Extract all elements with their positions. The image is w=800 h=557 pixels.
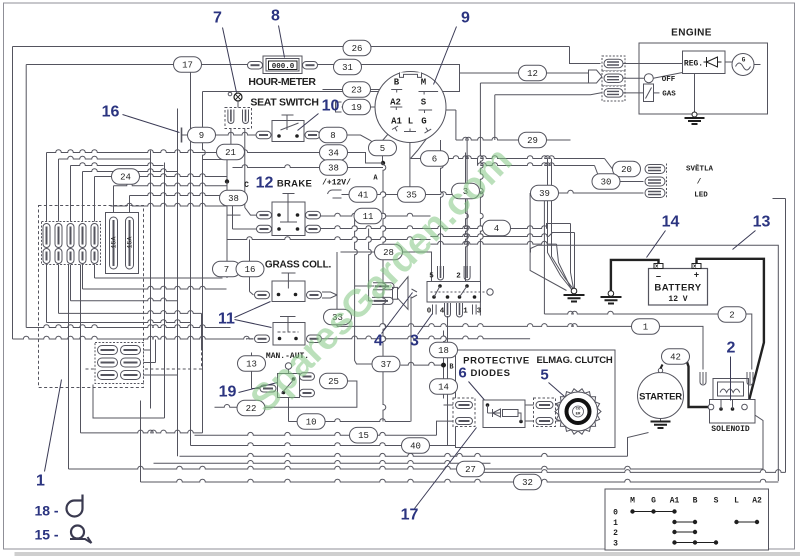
elmag clutch 5 bbox=[555, 389, 601, 434]
wire 27 long bottom run bbox=[69, 238, 764, 470]
wire label oval 20 bbox=[613, 161, 641, 177]
ignition switch 9 bbox=[375, 72, 446, 143]
wire 32 long bottom run bbox=[141, 401, 779, 483]
svg-text:25: 25 bbox=[328, 377, 339, 387]
horn connectors bbox=[372, 283, 394, 305]
svg-text:G: G bbox=[421, 117, 426, 127]
svg-text:HOUR-METER: HOUR-METER bbox=[248, 76, 316, 88]
label 4 leader bbox=[374, 293, 412, 350]
svg-text:10: 10 bbox=[306, 418, 317, 428]
svg-text:LED: LED bbox=[694, 192, 708, 200]
svg-text:3: 3 bbox=[613, 539, 618, 548]
svg-text:23: 23 bbox=[351, 86, 362, 96]
wire label oval 31 bbox=[334, 59, 362, 75]
svg-text:A1: A1 bbox=[670, 497, 680, 506]
wire 40 run bbox=[191, 427, 456, 446]
wire 21 top bend bbox=[203, 159, 228, 161]
svg-text:7: 7 bbox=[213, 10, 222, 27]
wire 20 to plug bbox=[621, 181, 644, 183]
svg-text:L: L bbox=[734, 497, 739, 506]
engine plugs bbox=[602, 56, 625, 101]
svg-text:11: 11 bbox=[363, 212, 374, 222]
engine ground bbox=[685, 74, 705, 125]
label 8 leader bbox=[271, 8, 284, 58]
svg-text:DIODES: DIODES bbox=[470, 368, 510, 379]
svg-text:M: M bbox=[421, 78, 426, 88]
svg-text:37: 37 bbox=[381, 360, 392, 370]
wire label oval 12 bbox=[519, 65, 547, 81]
wires plugs to reg bbox=[623, 64, 683, 79]
svg-text:A: A bbox=[373, 175, 378, 183]
svg-text:9: 9 bbox=[199, 131, 204, 141]
wire 4 brake-horn row bbox=[320, 224, 571, 229]
hour meter U8 bbox=[263, 56, 302, 74]
svg-text:34: 34 bbox=[328, 149, 339, 159]
svg-text:G: G bbox=[742, 57, 746, 64]
ignition terminal labels bbox=[390, 78, 427, 127]
svg-text:35: 35 bbox=[406, 191, 417, 201]
wire 41 35 row bbox=[342, 192, 466, 195]
label 16 leader bbox=[102, 104, 180, 133]
wire L terminal down bbox=[409, 132, 411, 195]
engine box bbox=[639, 43, 768, 114]
svg-text:+: + bbox=[694, 271, 699, 281]
svg-text:3: 3 bbox=[477, 308, 482, 316]
svg-text:27: 27 bbox=[465, 465, 476, 475]
fork connector +12V bbox=[328, 190, 342, 198]
svg-text:GAS: GAS bbox=[662, 91, 676, 99]
bar 16 bbox=[181, 128, 183, 143]
wire grass2 right bbox=[322, 336, 530, 339]
seat switch S10 bbox=[272, 115, 304, 142]
wire lamp 2 bbox=[478, 159, 621, 182]
svg-text:S: S bbox=[714, 497, 719, 506]
wire 2 pin vertical bbox=[466, 140, 468, 267]
svg-text:1: 1 bbox=[463, 308, 468, 316]
key symbol 15 bbox=[34, 526, 91, 544]
wire 39 lamp 3 bbox=[530, 190, 643, 193]
wire pin drops clutch control bbox=[447, 316, 449, 446]
relay connector block bbox=[95, 343, 144, 384]
wire 22 loop bbox=[215, 405, 331, 408]
diode connector right bbox=[534, 398, 556, 427]
diode module D6 bbox=[483, 400, 525, 428]
svg-text:ELMAG. CLUTCH: ELMAG. CLUTCH bbox=[536, 355, 612, 366]
wire 9 seat feed bbox=[182, 132, 258, 135]
horn 4 bbox=[393, 277, 418, 310]
seat switch connectors bbox=[256, 131, 320, 139]
wire 26 top loop bbox=[13, 47, 601, 64]
wire 31 row bbox=[203, 91, 419, 93]
svg-text:ER: ER bbox=[576, 413, 581, 417]
svg-text:C: C bbox=[244, 181, 249, 190]
svg-text:A2: A2 bbox=[390, 98, 401, 108]
svg-text:18 -: 18 - bbox=[34, 503, 58, 519]
svg-text:STARTER: STARTER bbox=[639, 392, 682, 403]
svg-text:30: 30 bbox=[601, 178, 612, 188]
wire outer right loop bbox=[484, 199, 786, 473]
OFF switch bbox=[644, 74, 675, 84]
wire label oval 39 bbox=[531, 185, 559, 201]
label MAN.-AUT. bbox=[266, 352, 309, 361]
hour meter connectors bbox=[248, 61, 318, 68]
label 6 leader bbox=[469, 382, 488, 404]
svg-text:B: B bbox=[449, 364, 454, 372]
svg-text:15A: 15A bbox=[111, 237, 118, 249]
svg-text:12: 12 bbox=[527, 69, 538, 79]
wire run 462 bbox=[154, 461, 491, 464]
svg-text:21: 21 bbox=[225, 148, 236, 158]
wire label oval 28 bbox=[375, 244, 403, 260]
label SVETLA / LED bbox=[686, 165, 714, 200]
svg-text:15 -: 15 - bbox=[34, 527, 58, 543]
svg-text:15: 15 bbox=[358, 431, 369, 441]
wire label oval 40 bbox=[402, 438, 430, 454]
svg-text:19: 19 bbox=[219, 384, 237, 401]
label GRASS COLL. bbox=[265, 260, 332, 271]
wire 38 bbox=[233, 165, 384, 168]
grass switch S11a bbox=[272, 273, 305, 302]
wire 37 left bbox=[355, 286, 372, 364]
grid stubs bbox=[138, 340, 178, 376]
wire label oval 19 bbox=[343, 99, 371, 115]
wire row 327 bbox=[26, 325, 230, 328]
wire row 339 grass2 feed bbox=[13, 336, 254, 339]
wire label oval 8 bbox=[319, 127, 347, 143]
wire label oval 6 bbox=[421, 151, 449, 167]
diode box feeds bbox=[444, 404, 454, 406]
svg-text:M: M bbox=[630, 497, 635, 506]
relay 19 connectors bbox=[300, 373, 315, 397]
svg-text:42: 42 bbox=[670, 353, 681, 363]
svg-text:41: 41 bbox=[358, 191, 369, 201]
generator G bbox=[725, 54, 761, 76]
left long verticals bbox=[13, 47, 206, 457]
svg-text:PROTECTIVE: PROTECTIVE bbox=[463, 356, 530, 367]
wire label oval 26 bbox=[343, 40, 371, 56]
node A junction bbox=[381, 161, 386, 422]
svg-text:9: 9 bbox=[461, 10, 470, 27]
wire label oval 21 bbox=[217, 144, 245, 160]
ground starter bbox=[651, 419, 671, 429]
brake switch S12 bbox=[272, 194, 305, 236]
starter motor 2 bbox=[638, 368, 684, 418]
svg-text:22: 22 bbox=[246, 404, 257, 414]
wire grass1 right fork bbox=[322, 292, 337, 298]
GAS switch bbox=[623, 84, 676, 102]
wire 20 vertical feeders bbox=[530, 159, 551, 315]
label 3 leader bbox=[410, 314, 432, 350]
wire 19 to A2 terminal bbox=[342, 106, 391, 108]
wire label oval 14 bbox=[430, 379, 458, 395]
wire label oval 22 bbox=[237, 400, 265, 416]
wire label oval 1 bbox=[632, 319, 660, 335]
wire label oval 17 bbox=[174, 57, 202, 73]
regulator REG bbox=[683, 51, 726, 74]
svg-text:17: 17 bbox=[401, 507, 419, 524]
wire 18 37 B column bbox=[401, 331, 447, 399]
wire 12 ignition M to engine plug bbox=[460, 72, 589, 74]
oval 42 and starter lead bbox=[661, 365, 663, 369]
wire label oval 24 bbox=[112, 169, 140, 185]
grass2 connectors bbox=[255, 335, 322, 343]
wire 23 to B terminal bbox=[323, 89, 392, 91]
wire label oval 18 bbox=[430, 342, 458, 358]
wire label oval 13 bbox=[238, 356, 266, 372]
wire label oval 25 bbox=[320, 373, 348, 389]
label 9 leader bbox=[434, 10, 471, 85]
wire grass1 feed row bbox=[228, 237, 431, 295]
engine plug arrow bbox=[589, 70, 603, 83]
label 5 leader bbox=[549, 383, 565, 397]
dashed harness edge bbox=[86, 331, 202, 370]
wire label oval 34 bbox=[320, 145, 348, 161]
wire 5 A1 leg bbox=[383, 130, 393, 164]
svg-text:5: 5 bbox=[380, 144, 385, 154]
wire 21 bbox=[225, 160, 241, 279]
svg-text:ENGINE: ENGINE bbox=[671, 28, 712, 39]
wire label oval 2 bbox=[718, 307, 746, 323]
svg-text:14: 14 bbox=[438, 383, 449, 393]
label 13 leader bbox=[733, 214, 771, 250]
svg-text:B: B bbox=[394, 78, 400, 88]
wire 24 row bbox=[95, 174, 228, 224]
fuse box 1 bbox=[39, 206, 144, 388]
svg-text:38: 38 bbox=[228, 194, 239, 204]
wire 2 solenoid feed bbox=[544, 311, 751, 369]
svg-text:18: 18 bbox=[438, 346, 449, 356]
label HOUR-METER bbox=[248, 76, 316, 88]
protective diodes box bbox=[456, 350, 616, 448]
svg-text:11: 11 bbox=[218, 311, 235, 328]
svg-text:13: 13 bbox=[246, 360, 257, 370]
wire row 236 bbox=[431, 233, 575, 237]
label 1 leader bbox=[36, 380, 61, 490]
wire ignition to engine mid bbox=[480, 83, 588, 316]
solenoid bbox=[708, 379, 755, 424]
wire label oval 9 bbox=[188, 127, 216, 143]
svg-text:/: / bbox=[697, 179, 702, 187]
wire label oval 41 bbox=[349, 187, 377, 203]
label SEAT SWITCH bbox=[250, 97, 318, 109]
svg-text:3: 3 bbox=[410, 333, 419, 350]
connector bracket left of oval 19 bbox=[336, 102, 342, 112]
grass1 connectors bbox=[255, 291, 322, 299]
svg-text:L: L bbox=[408, 117, 413, 127]
svg-text:31: 31 bbox=[342, 63, 353, 73]
wire label oval 7 bbox=[213, 261, 241, 277]
svg-text:SEAT SWITCH: SEAT SWITCH bbox=[250, 97, 318, 109]
svg-text:8: 8 bbox=[330, 131, 335, 141]
svg-text:1: 1 bbox=[643, 323, 648, 333]
wire label oval 35 bbox=[398, 187, 426, 203]
wire 28 row bbox=[337, 252, 432, 326]
svg-text:12 V: 12 V bbox=[668, 295, 687, 304]
svg-text:1: 1 bbox=[613, 519, 618, 528]
svg-text:32: 32 bbox=[522, 478, 533, 488]
ground fan wires bbox=[530, 191, 574, 291]
wire row 205 bbox=[111, 203, 228, 206]
svg-text:17: 17 bbox=[182, 61, 193, 71]
svg-text:2: 2 bbox=[613, 529, 618, 538]
svg-text:/+12V/: /+12V/ bbox=[322, 179, 351, 188]
svg-text:4: 4 bbox=[374, 333, 383, 350]
relay 19 bbox=[278, 363, 300, 398]
svg-text:12: 12 bbox=[256, 175, 274, 192]
svg-text:−: − bbox=[656, 273, 661, 283]
key symbol 18 bbox=[34, 495, 82, 519]
clutch control pin labels bbox=[427, 273, 482, 316]
svg-text:8: 8 bbox=[271, 8, 280, 25]
svetla plugs bbox=[645, 164, 667, 199]
svg-text:OFF: OFF bbox=[662, 76, 676, 84]
fuse riser rows bbox=[47, 150, 205, 224]
svg-text:7: 7 bbox=[224, 265, 229, 275]
svg-text:14: 14 bbox=[662, 214, 680, 231]
wire label oval 32 bbox=[514, 474, 542, 490]
svg-text:40: 40 bbox=[410, 442, 421, 452]
svg-text:5: 5 bbox=[540, 367, 548, 384]
svg-text:2: 2 bbox=[729, 311, 734, 321]
seat plug drops bbox=[231, 129, 257, 216]
svg-text:000.0: 000.0 bbox=[272, 63, 295, 71]
svg-text:S: S bbox=[421, 98, 427, 108]
wire 8 seat output bbox=[320, 135, 377, 146]
wire label oval 11 bbox=[354, 208, 382, 224]
svg-text:B: B bbox=[693, 497, 698, 506]
wire label oval 27 bbox=[457, 461, 485, 477]
fuse pins block bbox=[42, 222, 101, 265]
svg-text:2: 2 bbox=[456, 273, 461, 281]
wire 38b brake left lower bbox=[233, 198, 258, 229]
clutch control unit 3 bbox=[427, 282, 493, 303]
wire 3 vertical bbox=[466, 153, 469, 301]
label 11 leaders bbox=[218, 302, 271, 328]
watermark bbox=[242, 139, 520, 421]
wire 25 bbox=[331, 381, 357, 407]
ignition terminal ticks bbox=[390, 90, 438, 134]
ignition table bbox=[605, 489, 769, 550]
wire 13 man-aut bbox=[252, 353, 277, 393]
svg-text:16: 16 bbox=[245, 265, 256, 275]
node B junction bbox=[441, 363, 454, 372]
svg-text:13: 13 bbox=[753, 214, 771, 231]
label BRAKE bbox=[244, 175, 312, 192]
wire label oval 16 bbox=[236, 261, 264, 277]
svg-text:SVĚTLA: SVĚTLA bbox=[686, 165, 714, 174]
svg-text:A1: A1 bbox=[391, 117, 402, 127]
seat plug P7 bbox=[225, 92, 252, 128]
wire 6 G terminal run bbox=[411, 133, 641, 170]
wire grass2 left bbox=[247, 338, 254, 341]
svg-text:BATTERY: BATTERY bbox=[654, 283, 701, 294]
svg-text:5: 5 bbox=[429, 273, 434, 281]
svg-text:0: 0 bbox=[427, 308, 432, 316]
solenoid lead thick bbox=[687, 361, 710, 408]
battery plus lead bbox=[697, 259, 764, 406]
wire 15 run bbox=[195, 421, 454, 435]
ground main fan bbox=[564, 288, 585, 301]
svg-text:G: G bbox=[651, 497, 656, 506]
label ELMAG. CLUTCH bbox=[536, 355, 612, 384]
wire 17 hour-meter feed bbox=[26, 64, 248, 66]
svg-text:2: 2 bbox=[727, 340, 736, 357]
label PROTECTIVE DIODES bbox=[458, 356, 530, 382]
svg-text:38: 38 bbox=[328, 164, 339, 174]
wire 34 bbox=[203, 150, 384, 163]
wire row 244 bbox=[431, 241, 557, 244]
svg-text:10: 10 bbox=[322, 98, 340, 115]
wire ignition S to engine plug bbox=[495, 93, 604, 140]
wire horn to 10 bbox=[410, 297, 412, 422]
wire label oval 23 bbox=[343, 82, 371, 98]
label 17 leader bbox=[401, 428, 477, 524]
wire 29 bbox=[432, 110, 570, 140]
wire 5 pin vertical bbox=[441, 140, 444, 267]
wire label oval 4 bbox=[483, 220, 511, 236]
svg-text:6: 6 bbox=[432, 155, 437, 165]
wire 13 harness loop bbox=[531, 245, 779, 481]
wire label oval 30 bbox=[592, 174, 620, 190]
brake connectors bbox=[257, 211, 321, 232]
clutch control pins bbox=[433, 266, 477, 317]
svg-text:GRASS COLL.: GRASS COLL. bbox=[265, 260, 332, 271]
diode connector left bbox=[453, 398, 475, 427]
label 19 leader bbox=[219, 383, 278, 401]
svg-text:26: 26 bbox=[352, 44, 363, 54]
label 2 leader bbox=[727, 340, 736, 401]
svg-text:19: 19 bbox=[351, 103, 362, 113]
wire label oval 10 bbox=[297, 414, 325, 430]
svg-text:REG.: REG. bbox=[684, 60, 703, 69]
wire label oval 29 bbox=[519, 132, 547, 148]
label SOLENOID bbox=[711, 425, 750, 434]
wire label oval 15 bbox=[350, 427, 378, 443]
wire label oval 5 bbox=[369, 140, 397, 156]
label +12V bbox=[322, 179, 351, 188]
wire label oval 42 bbox=[662, 349, 690, 365]
svg-text:SOLENOID: SOLENOID bbox=[711, 425, 750, 434]
horn feeds bbox=[355, 216, 376, 301]
svg-text:16: 16 bbox=[102, 104, 120, 121]
svg-text:0: 0 bbox=[613, 508, 618, 517]
wire label oval 33 bbox=[324, 309, 352, 325]
wire 10 run bbox=[93, 385, 411, 422]
label 10 leader bbox=[298, 98, 340, 131]
wire run 455 bbox=[180, 433, 649, 457]
battery 14 bbox=[649, 264, 708, 306]
svg-text:15A: 15A bbox=[127, 237, 134, 249]
battery minus lead bbox=[611, 260, 659, 292]
wire hour-meter to M bbox=[317, 65, 460, 92]
svg-text:29: 29 bbox=[527, 136, 538, 146]
label ENGINE bbox=[671, 28, 712, 39]
label 7 leader bbox=[213, 10, 236, 93]
wire label oval 38 bbox=[320, 160, 348, 176]
wire 1 starter feed bbox=[337, 324, 703, 370]
svg-text:4: 4 bbox=[440, 308, 445, 316]
svg-text:CO: CO bbox=[576, 408, 581, 412]
wires diode to clutch bbox=[525, 405, 567, 421]
bottom-left runs bbox=[81, 238, 203, 433]
left lower web bbox=[47, 264, 227, 351]
wire label oval 38 bbox=[220, 190, 248, 206]
fuse holder 15A bbox=[106, 213, 139, 274]
svg-text:4: 4 bbox=[494, 224, 499, 234]
wire 11 brake output bbox=[320, 213, 431, 216]
grass switch S11b bbox=[273, 317, 305, 346]
solenoid prongs bbox=[700, 372, 753, 385]
